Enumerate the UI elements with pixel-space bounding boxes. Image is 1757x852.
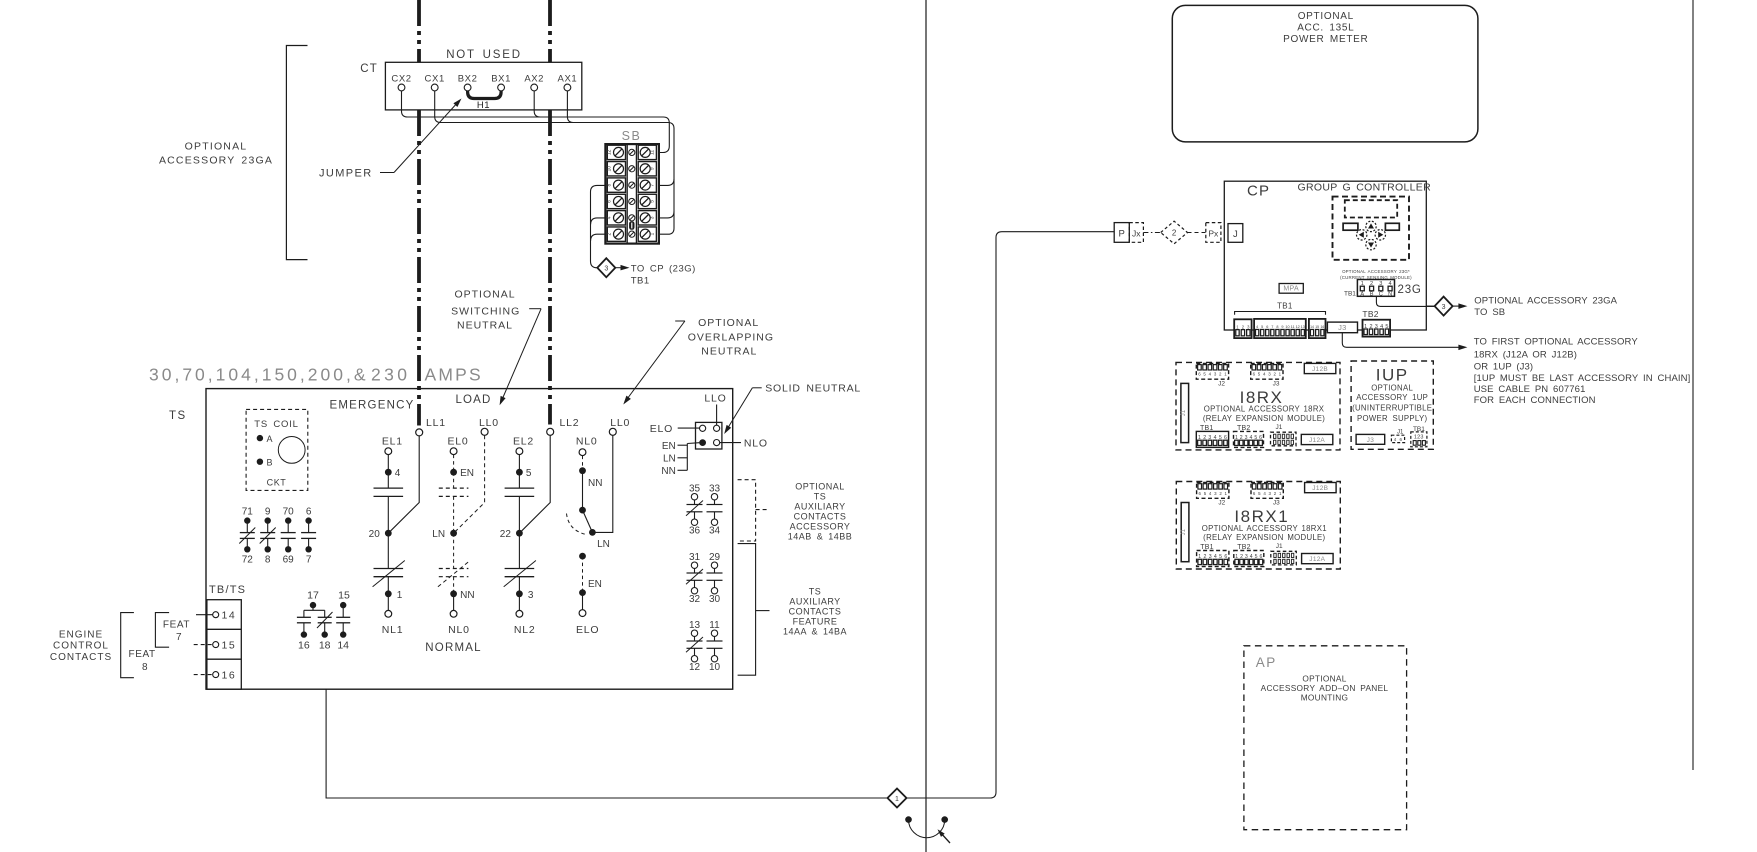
- svg-text:CONTACTS: CONTACTS: [50, 652, 112, 663]
- bracket accessory contacts (dashed): [738, 480, 756, 541]
- svg-text:AX2: AX2: [524, 74, 544, 85]
- svg-text:EN: EN: [460, 468, 474, 479]
- svg-text:NLO: NLO: [744, 438, 768, 450]
- svg-text:SOLID NEUTRAL: SOLID NEUTRAL: [765, 383, 861, 395]
- svg-text:4 6: 4 6: [1394, 437, 1403, 442]
- svg-text:30: 30: [709, 594, 721, 605]
- svg-text:SB: SB: [622, 129, 642, 143]
- svg-text:GROUP G CONTROLLER: GROUP G CONTROLLER: [1298, 182, 1432, 194]
- svg-text:17: 17: [307, 590, 319, 602]
- svg-text:3: 3: [528, 590, 534, 601]
- svg-text:10: 10: [607, 166, 613, 172]
- svg-text:(RELAY EXPANSION MODULE): (RELAY EXPANSION MODULE): [1203, 533, 1325, 542]
- label ENGINE CONTROL CONTACTS: [50, 630, 112, 664]
- svg-text:ACC. 135L: ACC. 135L: [1297, 23, 1354, 34]
- svg-text:J3: J3: [1273, 380, 1280, 387]
- relay TS COIL: [246, 409, 308, 490]
- connector P: [1114, 223, 1129, 243]
- pole EL2 switch: [500, 436, 536, 637]
- wire CP J3 to accessories: [1342, 333, 1462, 348]
- svg-text:CX1: CX1: [425, 74, 445, 85]
- svg-text:LL0: LL0: [610, 417, 630, 429]
- wire LL1 to contact 20: [388, 436, 419, 533]
- contact 15/14: [336, 590, 350, 652]
- wire bus drop to SB rows 3,5,6: [659, 129, 674, 235]
- svg-text:33: 33: [709, 484, 721, 495]
- label OPTIONAL ACCESSORY 23GA: [159, 141, 273, 167]
- svg-text:LL2: LL2: [560, 417, 580, 429]
- svg-text:FEAT: FEAT: [163, 620, 190, 631]
- wire NLO from solid neutral: [720, 438, 768, 450]
- label amperage title: [149, 365, 483, 385]
- svg-text:CT: CT: [360, 63, 378, 75]
- node LL2: [547, 417, 580, 435]
- svg-text:3: 3: [604, 266, 608, 273]
- svg-text:11: 11: [709, 620, 720, 631]
- solid neutral block: [696, 393, 727, 450]
- wire TS box to diamond 1: [326, 689, 887, 798]
- svg-text:TO SB: TO SB: [1474, 307, 1505, 318]
- terminal block SB: [605, 129, 659, 244]
- wire sheet-border vertical center: [925, 0, 927, 852]
- svg-text:8: 8: [1276, 325, 1278, 329]
- svg-text:3: 3: [650, 216, 656, 219]
- label TO CP (23G) TB1: [615, 264, 696, 287]
- wire phase line L2 (dash-dot): [548, 0, 552, 425]
- labels EN LN NN to solid neutral: [661, 441, 699, 477]
- svg-text:12: 12: [1296, 325, 1300, 329]
- svg-text:9: 9: [650, 167, 656, 170]
- svg-text:AUXILIARY: AUXILIARY: [789, 596, 840, 606]
- svg-text:NN: NN: [460, 590, 474, 601]
- svg-text:OPTIONAL: OPTIONAL: [1298, 11, 1354, 22]
- svg-text:123: 123: [1414, 434, 1424, 440]
- svg-text:USE CABLE PN 607761: USE CABLE PN 607761: [1474, 384, 1586, 395]
- label OPTIONAL ACCESSORY 23GA TO SB: [1453, 295, 1618, 317]
- svg-text:CONTACTS: CONTACTS: [794, 512, 847, 522]
- svg-text:11: 11: [1291, 325, 1295, 329]
- svg-text:J3: J3: [1367, 437, 1375, 444]
- wire to terminal 16 (dashed): [194, 674, 213, 676]
- svg-text:H1: H1: [477, 100, 490, 111]
- svg-text:EN: EN: [588, 579, 602, 590]
- svg-text:A: A: [1360, 292, 1364, 298]
- wire 23G to diamond 3: [1376, 296, 1434, 306]
- svg-text:1: 1: [397, 590, 403, 601]
- module I8RX1 relay expansion: [1176, 482, 1340, 570]
- svg-text:EMERGENCY: EMERGENCY: [330, 400, 415, 412]
- wire CT CX1 to bus: [435, 91, 674, 129]
- svg-text:EN: EN: [662, 441, 676, 452]
- svg-text:TS COIL: TS COIL: [254, 419, 299, 430]
- connector CP J3: [1327, 322, 1357, 333]
- svg-text:B: B: [267, 457, 273, 467]
- svg-text:TB1: TB1: [1277, 302, 1293, 311]
- svg-text:14AA & 14BA: 14AA & 14BA: [783, 626, 847, 636]
- svg-text:TS: TS: [809, 586, 822, 596]
- svg-text:16: 16: [1320, 325, 1324, 329]
- wire CT CX2 to bus: [402, 91, 670, 123]
- bracket OPTIONAL ACCESSORY 23GA: [286, 46, 307, 260]
- transformer block CT (NOT USED): [360, 49, 582, 110]
- svg-text:FEAT: FEAT: [129, 649, 156, 660]
- svg-text:TB2: TB2: [1362, 309, 1379, 319]
- connector MPA: [1279, 284, 1303, 294]
- connector CP TB1 group 4-13: [1254, 319, 1306, 338]
- svg-text:BX2: BX2: [458, 74, 478, 85]
- meter box OPTIONAL ACC 135L POWER METER: [1172, 5, 1478, 142]
- svg-text:69: 69: [283, 555, 295, 566]
- node diamond 3 (CP side): [1426, 297, 1452, 316]
- svg-text:LOAD: LOAD: [455, 394, 491, 406]
- svg-text:FEATURE: FEATURE: [793, 616, 838, 626]
- svg-text:6: 6: [607, 200, 613, 203]
- svg-text:ACCESSORY ADD–ON PANEL: ACCESSORY ADD–ON PANEL: [1261, 683, 1389, 693]
- connector CP TB1 group 1-3: [1234, 319, 1251, 338]
- label ELO to solid neutral: [650, 423, 700, 435]
- wire LL0 to LN (dashed): [454, 435, 485, 533]
- wire to terminal 15 (dashed): [194, 644, 213, 646]
- svg-text:NN: NN: [661, 466, 675, 477]
- wire diamond 1 to CP riser: [907, 232, 1115, 798]
- svg-text:2: 2: [1172, 229, 1177, 238]
- svg-text:J12A: J12A: [1309, 556, 1325, 563]
- module I8RX relay expansion: [1176, 362, 1340, 450]
- svg-text:29: 29: [709, 552, 721, 563]
- svg-text:16: 16: [298, 640, 310, 652]
- svg-text:ELO: ELO: [576, 624, 599, 636]
- svg-text:16: 16: [222, 669, 237, 681]
- CP button down: [1366, 239, 1376, 249]
- svg-text:34: 34: [709, 526, 721, 537]
- svg-text:J12A: J12A: [1309, 437, 1325, 444]
- label accessory chain notes: [1474, 337, 1691, 407]
- svg-text:36: 36: [689, 526, 701, 537]
- svg-text:NORMAL: NORMAL: [425, 642, 481, 654]
- svg-text:30,70,104,150,200,&: 30,70,104,150,200,&: [149, 365, 369, 385]
- panel AP add-on mounting (dashed): [1244, 646, 1407, 830]
- svg-text:230: 230: [371, 365, 410, 385]
- svg-text:71: 71: [242, 507, 254, 518]
- bracket FEAT 8: [121, 613, 156, 678]
- connector 23G TB1: [1344, 280, 1395, 298]
- svg-text:ELO: ELO: [650, 423, 673, 435]
- svg-text:14: 14: [337, 640, 349, 652]
- svg-text:NL2: NL2: [514, 624, 536, 636]
- svg-text:OPTIONAL ACCESSORY 18RX1: OPTIONAL ACCESSORY 18RX1: [1202, 524, 1327, 533]
- svg-text:13: 13: [1301, 325, 1305, 329]
- connector Px (dashed): [1206, 223, 1221, 243]
- svg-text:BX1: BX1: [491, 74, 511, 85]
- svg-text:23G: 23G: [1398, 284, 1422, 296]
- svg-text:J1: J1: [1181, 409, 1187, 416]
- pole EL0 switching neutral (dashed): [432, 436, 474, 637]
- svg-text:OPTIONAL ACCESSORY 23GA: OPTIONAL ACCESSORY 23GA: [1474, 295, 1617, 306]
- CP keypad panel (dashed): [1333, 197, 1410, 260]
- svg-text:(RELAY EXPANSION MODULE): (RELAY EXPANSION MODULE): [1203, 414, 1325, 423]
- svg-text:18RX (J12A OR J12B): 18RX (J12A OR J12B): [1474, 350, 1577, 361]
- svg-text:J2: J2: [1218, 500, 1225, 507]
- controller CP outline: [1224, 181, 1426, 330]
- svg-text:1: 1: [650, 233, 656, 236]
- wire diamond 2 to Px (dashed): [1188, 232, 1206, 234]
- wire CT AX1 to bus: [567, 91, 573, 123]
- svg-text:4: 4: [395, 468, 401, 479]
- label SOLID NEUTRAL leader: [724, 383, 861, 435]
- svg-text:TB1: TB1: [631, 276, 650, 287]
- svg-text:LL0: LL0: [479, 417, 499, 429]
- CP button up: [1366, 221, 1376, 231]
- svg-text:4: 4: [607, 216, 613, 219]
- svg-text:NOT USED: NOT USED: [446, 49, 522, 61]
- svg-text:MPA: MPA: [1283, 286, 1299, 293]
- svg-text:7: 7: [176, 632, 182, 643]
- contact 6/7: [301, 507, 316, 566]
- svg-text:9: 9: [1281, 325, 1283, 329]
- wire SB left row5 hook: [591, 218, 606, 225]
- jumper H1 on CT BX2-BX1: [468, 91, 502, 111]
- node diamond 1: [888, 789, 907, 808]
- svg-text:4: 4: [1256, 325, 1258, 329]
- svg-text:TS: TS: [169, 410, 187, 422]
- svg-text:OR 1UP (J3): OR 1UP (J3): [1474, 361, 1534, 372]
- CP button left-arrow: [1357, 230, 1367, 240]
- svg-text:IUP: IUP: [1376, 366, 1409, 385]
- svg-text:LN: LN: [663, 454, 676, 465]
- wire phase line L1 (dash-dot): [417, 0, 421, 426]
- contact aux 13/11 12/10: [686, 620, 723, 673]
- svg-text:C: C: [1379, 292, 1383, 298]
- svg-text:P: P: [1119, 228, 1125, 239]
- CP button right: [1385, 223, 1399, 230]
- svg-text:8: 8: [607, 183, 613, 186]
- svg-text:J: J: [1233, 229, 1238, 240]
- label OPTIONAL ACCESSORY 23G (CURRENT SENSING MODULE): [1340, 269, 1412, 280]
- svg-text:B: B: [1370, 292, 1374, 298]
- wire LL0 to LN overlap: [592, 435, 612, 532]
- connector CP TB2: [1362, 309, 1390, 337]
- svg-text:Px: Px: [1208, 228, 1219, 238]
- svg-text:CP: CP: [1247, 183, 1270, 200]
- svg-text:20: 20: [369, 529, 381, 540]
- svg-text:ENGINE: ENGINE: [59, 630, 103, 641]
- svg-text:6: 6: [1266, 325, 1268, 329]
- pole EL1 switch: [369, 436, 405, 637]
- svg-text:5: 5: [526, 468, 532, 479]
- svg-text:TO FIRST OPTIONAL ACCESSORY: TO FIRST OPTIONAL ACCESSORY: [1474, 337, 1639, 348]
- wire Jx to diamond 2 (dash-dot): [1143, 232, 1160, 234]
- svg-text:LN: LN: [597, 539, 610, 550]
- svg-text:TB1: TB1: [1344, 290, 1356, 297]
- CP button right-arrow: [1375, 230, 1385, 240]
- svg-text:J2: J2: [1218, 380, 1225, 387]
- label OPTIONAL TS AUXILIARY CONTACTS ACCESSORY 14AB & 14BB: [788, 482, 853, 542]
- svg-text:18: 18: [319, 640, 331, 652]
- svg-text:ACCESSORY 23GA: ACCESSORY 23GA: [159, 155, 273, 167]
- CP LCD display (dashed): [1345, 200, 1397, 217]
- svg-text:NL0: NL0: [448, 624, 470, 636]
- svg-text:22: 22: [500, 529, 512, 540]
- svg-text:J3: J3: [1338, 323, 1347, 332]
- svg-text:LN: LN: [432, 529, 445, 540]
- svg-text:LLO: LLO: [704, 393, 726, 405]
- svg-text:N: N: [1388, 292, 1392, 298]
- contact 17 (16,18): [297, 590, 333, 652]
- connector J: [1228, 224, 1243, 243]
- svg-text:POWER METER: POWER METER: [1283, 34, 1368, 45]
- svg-text:EL2: EL2: [513, 436, 534, 448]
- node diamond 2 (dashed): [1161, 221, 1188, 244]
- svg-text:72: 72: [242, 555, 254, 566]
- svg-text:15: 15: [338, 590, 350, 602]
- svg-text:J1: J1: [1276, 424, 1283, 431]
- svg-text:7: 7: [306, 555, 312, 566]
- svg-text:5: 5: [650, 200, 656, 203]
- svg-text:AUXILIARY: AUXILIARY: [794, 502, 845, 512]
- svg-text:FOR EACH CONNECTION: FOR EACH CONNECTION: [1474, 395, 1596, 406]
- svg-text:OPTIONAL: OPTIONAL: [1371, 383, 1413, 392]
- svg-text:OPTIONAL ACCESSORY 18RX: OPTIONAL ACCESSORY 18RX: [1204, 405, 1325, 414]
- svg-text:[1UP MUST BE LAST ACCESSORY IN: [1UP MUST BE LAST ACCESSORY IN CHAIN]: [1474, 373, 1691, 384]
- node LL0 switching: [479, 417, 499, 435]
- svg-text:12: 12: [607, 149, 613, 155]
- svg-text:Jx: Jx: [1132, 228, 1141, 238]
- svg-text:OPTIONAL: OPTIONAL: [795, 482, 845, 492]
- svg-text:OPTIONAL: OPTIONAL: [1302, 673, 1346, 683]
- svg-text:JUMPER: JUMPER: [319, 168, 373, 180]
- svg-text:EL1: EL1: [382, 436, 403, 448]
- node LL0 overlapping: [609, 417, 630, 435]
- svg-text:OPTIONAL: OPTIONAL: [185, 141, 248, 153]
- svg-text:35: 35: [689, 484, 701, 495]
- svg-text:ACCESSORY 1UP: ACCESSORY 1UP: [1356, 393, 1428, 402]
- junction arc symbol: [905, 816, 950, 843]
- svg-text:15: 15: [222, 639, 237, 651]
- label TS AUXILIARY CONTACTS FEATURE 14AA & 14BA: [783, 586, 847, 636]
- svg-text:14AB & 14BB: 14AB & 14BB: [788, 532, 853, 542]
- svg-text:10: 10: [709, 662, 721, 673]
- svg-text:TB/TS: TB/TS: [209, 584, 246, 596]
- svg-text:CKT: CKT: [267, 478, 287, 488]
- wire to terminal 14: [196, 614, 213, 616]
- svg-text:NL1: NL1: [382, 624, 404, 636]
- svg-text:10: 10: [1285, 325, 1289, 329]
- contact aux 35/33 36/34: [686, 484, 723, 537]
- svg-text:1: 1: [895, 796, 899, 803]
- svg-text:MOUNTING: MOUNTING: [1301, 692, 1349, 702]
- wire LL2 to contact 22: [519, 435, 550, 533]
- svg-text:7: 7: [1271, 325, 1273, 329]
- svg-text:32: 32: [689, 594, 701, 605]
- svg-text:OPTIONAL: OPTIONAL: [698, 317, 759, 329]
- label OPTIONAL OVERLAPPING NEUTRAL with leader: [623, 317, 774, 405]
- svg-text:J1: J1: [1181, 528, 1187, 535]
- svg-text:CX2: CX2: [391, 74, 411, 85]
- svg-text:14: 14: [222, 610, 237, 622]
- svg-text:2: 2: [607, 233, 613, 236]
- svg-text:OPTIONAL: OPTIONAL: [454, 289, 515, 301]
- wire CT AX2 to bus: [534, 91, 540, 117]
- svg-text:8: 8: [265, 555, 271, 566]
- svg-text:NEUTRAL: NEUTRAL: [457, 320, 513, 332]
- svg-text:SWITCHING: SWITCHING: [451, 306, 520, 318]
- svg-text:CONTACTS: CONTACTS: [789, 606, 842, 616]
- svg-text:7: 7: [650, 183, 656, 186]
- svg-text:OPTIONAL ACCESSORY 23G*: OPTIONAL ACCESSORY 23G*: [1342, 269, 1410, 274]
- contact aux 31/29 32/30: [686, 552, 723, 605]
- svg-text:OVERLAPPING: OVERLAPPING: [688, 332, 774, 344]
- svg-text:13: 13: [689, 620, 701, 631]
- svg-text:J1: J1: [1276, 543, 1283, 550]
- wire sheet-border vertical right: [1692, 0, 1694, 770]
- svg-text:NL0: NL0: [576, 436, 598, 448]
- svg-text:NEUTRAL: NEUTRAL: [701, 346, 757, 358]
- svg-text:6: 6: [306, 507, 312, 518]
- svg-text:3: 3: [1442, 304, 1446, 311]
- contact 71/72: [239, 507, 255, 566]
- svg-text:9: 9: [265, 507, 271, 518]
- svg-text:J12B: J12B: [1312, 366, 1328, 373]
- node LL1: [416, 417, 446, 436]
- svg-text:AMPS: AMPS: [425, 365, 483, 385]
- transfer switch TS outline: [206, 389, 733, 690]
- wire bus drop to SB row1: [659, 123, 669, 153]
- svg-text:LL1: LL1: [426, 417, 446, 429]
- pole NL0 overlapping neutral: [567, 436, 610, 637]
- svg-text:AP: AP: [1256, 655, 1277, 670]
- svg-text:CONTROL: CONTROL: [53, 641, 109, 652]
- svg-text:31: 31: [689, 552, 701, 563]
- svg-text:5: 5: [1261, 325, 1263, 329]
- svg-text:POWER SUPPLY): POWER SUPPLY): [1357, 414, 1427, 423]
- svg-text:J3: J3: [1273, 500, 1280, 507]
- svg-text:AX1: AX1: [558, 74, 578, 85]
- contact 70/69: [281, 507, 296, 566]
- svg-text:A: A: [267, 434, 273, 444]
- svg-text:J12B: J12B: [1312, 485, 1328, 492]
- svg-text:TO CP (23G): TO CP (23G): [631, 264, 696, 275]
- svg-text:14: 14: [1310, 325, 1314, 329]
- svg-text:(UNINTERRUPTIBLE: (UNINTERRUPTIBLE: [1352, 404, 1432, 413]
- node diamond 3 (SB to CP cable): [597, 258, 615, 277]
- svg-text:TS: TS: [814, 492, 827, 502]
- svg-text:15: 15: [1315, 325, 1319, 329]
- connector Jx (dashed): [1129, 223, 1143, 243]
- svg-text:EL0: EL0: [447, 436, 468, 448]
- svg-text:70: 70: [283, 507, 295, 518]
- contact 9/8: [260, 507, 276, 566]
- connector CP TB1 group 14-16: [1309, 319, 1326, 338]
- wire SB left row3 to diamond 3: [591, 185, 606, 267]
- module IUP uninterruptible power supply: [1351, 361, 1433, 449]
- bracket TB1 bottom: [1235, 302, 1326, 315]
- terminal strip TB/TS: [207, 584, 246, 689]
- label JUMPER with leader arrow: [319, 99, 462, 180]
- wire SB left row6 hook: [591, 234, 606, 241]
- bracket feature contacts: [738, 544, 756, 676]
- svg-text:11: 11: [650, 150, 656, 155]
- bracket FEAT 7: [155, 613, 190, 648]
- CP button left: [1343, 223, 1358, 230]
- label OPTIONAL SWITCHING NEUTRAL with leader: [451, 289, 541, 406]
- svg-text:ACCESSORY: ACCESSORY: [790, 522, 851, 532]
- svg-text:8: 8: [142, 662, 148, 673]
- svg-text:12: 12: [689, 662, 701, 673]
- svg-text:NN: NN: [588, 478, 602, 489]
